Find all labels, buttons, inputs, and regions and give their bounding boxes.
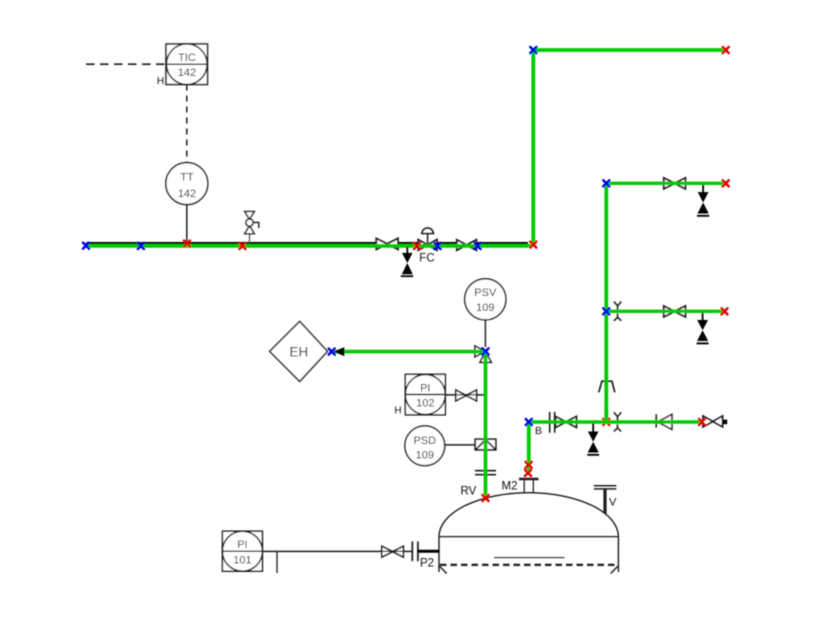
node: red X branch2 end xyxy=(721,308,727,314)
valve: check valve bottom branch xyxy=(656,414,672,429)
svg-text:B: B xyxy=(535,425,542,437)
svg-text:142: 142 xyxy=(178,188,196,200)
valve: gate valve V2 xyxy=(457,240,477,250)
wire: bottom branch pipe xyxy=(529,420,702,423)
equipment: vessel dome xyxy=(439,493,618,572)
wire: right header vertical pipe xyxy=(604,184,608,423)
node: blue X main pipe joint xyxy=(138,243,144,249)
valve: branch2 gate valve xyxy=(664,306,686,317)
node: blue X after FC xyxy=(434,243,440,249)
node: red X riser bottom corner xyxy=(530,242,536,248)
svg-text:109: 109 xyxy=(476,302,494,314)
svg-text:TT: TT xyxy=(180,172,194,184)
svg-text:PI: PI xyxy=(420,382,430,394)
wire: PI101 impulse line xyxy=(262,550,412,552)
node: blue X EH connection xyxy=(329,349,335,355)
fitting: flange pair after B xyxy=(550,412,555,433)
fitting: V nozzle xyxy=(594,486,616,514)
wire: main process pipe black line xyxy=(86,242,528,244)
valve: PI101 isolation valve xyxy=(382,546,404,557)
svg-text:102: 102 xyxy=(416,397,434,409)
node: red X before FC xyxy=(414,243,420,249)
svg-text:142: 142 xyxy=(178,67,196,79)
node: blue X branch2 junction xyxy=(603,308,609,314)
fitting: tap tick xyxy=(276,551,278,573)
wire: vent junction vertical green xyxy=(604,410,608,424)
fitting: hose Y connection bottom branch xyxy=(614,412,621,431)
fitting: M2 nozzle xyxy=(519,479,539,493)
equipment: vessel dashed level line xyxy=(439,565,618,574)
instrument TIC142 xyxy=(166,44,208,85)
wire: top pipe xyxy=(533,48,725,52)
node: red X sample tap xyxy=(239,243,245,249)
wire: riser pipe x533 xyxy=(531,50,535,246)
instrument TT142 xyxy=(166,163,208,205)
wire: PSD109 signal line xyxy=(445,444,476,446)
svg-text:PSD: PSD xyxy=(413,435,436,447)
node: red X vent junction under green xyxy=(603,419,609,425)
wire: dashed signal line to TIC xyxy=(86,63,166,65)
valve: branch2 drain xyxy=(697,313,709,343)
wire: PI101 line over valve xyxy=(262,550,412,552)
svg-text:H: H xyxy=(394,406,401,417)
instrument PSD109 xyxy=(405,426,445,466)
wire: TT tap line to pipe xyxy=(186,205,188,244)
wire: PI102 line over valve xyxy=(445,394,485,396)
wire: RV riser green xyxy=(484,352,488,498)
svg-text:PI: PI xyxy=(237,539,247,551)
svg-text:M2: M2 xyxy=(502,481,518,493)
svg-text:109: 109 xyxy=(416,449,434,461)
node: red X M2 upper xyxy=(526,462,532,468)
node: blue X PSV junction xyxy=(482,348,488,354)
svg-text:101: 101 xyxy=(233,554,251,566)
node: red X top pipe end xyxy=(723,47,729,53)
node: blue X riser top corner xyxy=(530,47,536,53)
wire: short green M2 xyxy=(527,465,531,472)
wire: PI102 impulse line xyxy=(445,394,485,396)
wire: branch1 pipe xyxy=(606,182,725,185)
svg-text:V: V xyxy=(609,497,617,509)
wire: relief header to EH xyxy=(334,350,486,354)
fitting: flange pair on RV line xyxy=(475,471,496,475)
node: blue X branch1 junction xyxy=(603,180,609,186)
fitting: vent hood on header xyxy=(599,381,615,392)
equipment: inner level line xyxy=(494,557,565,559)
instrument PI101 xyxy=(222,531,262,571)
valve: gate valve V1 on main pipe xyxy=(376,238,398,249)
node: blue X main pipe left end xyxy=(83,243,89,249)
wire: P2 nozzle thick line xyxy=(418,550,440,553)
valve: bottom branch drain xyxy=(587,424,599,455)
node: red X branch1 end xyxy=(723,180,729,186)
wire: branch2 pipe xyxy=(606,310,724,313)
fitting: flange pair P2 xyxy=(412,541,418,561)
svg-text:FC: FC xyxy=(419,253,434,265)
instrument EH diamond xyxy=(270,321,328,381)
valve: control valve FC body xyxy=(418,228,437,250)
svg-text:EH: EH xyxy=(289,344,308,359)
fitting: arrow into EH xyxy=(334,347,345,356)
valve: sample valve with lever xyxy=(245,211,259,243)
valve: gate valve after B xyxy=(556,417,577,428)
node: blue X node B xyxy=(526,419,532,425)
svg-text:P2: P2 xyxy=(420,558,434,570)
svg-text:PSV: PSV xyxy=(474,287,497,299)
wire: PSV stem xyxy=(484,320,486,347)
wire: main pipe green highlight xyxy=(86,244,533,248)
fitting: hose Y connection branch2 xyxy=(614,302,621,321)
wire: dashed signal TIC to TT xyxy=(186,85,188,163)
node: blue X after V2 xyxy=(474,243,480,249)
wire: M2 line from B down xyxy=(527,422,531,465)
valve: branch1 drain xyxy=(697,185,709,216)
svg-text:TIC: TIC xyxy=(178,52,196,64)
valve: PI102 isolation valve xyxy=(456,390,477,401)
node: red X bottom branch end xyxy=(699,419,705,425)
node: red X M2 lower xyxy=(525,470,531,476)
valve: drain under FC xyxy=(401,247,413,276)
fitting: rupture disc xyxy=(475,439,496,450)
svg-text:H: H xyxy=(157,76,164,87)
valve: branch1 gate valve xyxy=(664,178,686,189)
valve: relief angle valve xyxy=(475,346,491,363)
instrument PSV109 xyxy=(465,279,506,320)
svg-text:RV: RV xyxy=(461,486,477,498)
valve: end gate valve with plug xyxy=(703,416,727,427)
node: red X TT tap xyxy=(184,241,190,247)
node: red X RV vessel connection xyxy=(482,495,488,501)
instrument PI102 xyxy=(405,374,445,415)
